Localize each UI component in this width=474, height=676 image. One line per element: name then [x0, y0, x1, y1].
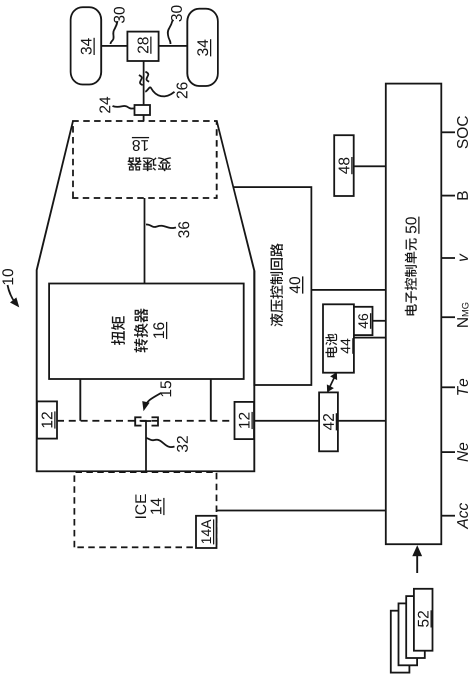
- housing outline 10: [37, 121, 255, 471]
- wire 36: [144, 198, 146, 284]
- ECU 50: [386, 84, 442, 545]
- wire 16 to shaft lower: [210, 379, 212, 421]
- leader 24: [113, 106, 135, 109]
- input shaft dashed: [57, 420, 235, 422]
- label 32: [177, 436, 188, 452]
- leader arrow 15: [145, 393, 161, 407]
- label 10: [2, 269, 13, 284]
- wire 46 to ECU: [373, 320, 386, 322]
- label 36: [178, 222, 189, 238]
- wire 44 to ECU: [354, 337, 386, 339]
- wire axle upper: [101, 45, 127, 47]
- wire 42 to ECU: [338, 420, 386, 422]
- label v: [460, 253, 468, 261]
- leader 26: [145, 87, 174, 96]
- wire clutch to ICE: [145, 421, 147, 471]
- signal tick Ne: [441, 451, 455, 453]
- wire shaft 26: [143, 61, 145, 105]
- double arrow 42-44: [329, 376, 335, 389]
- inverter 42: [319, 392, 338, 451]
- signal tick Te: [441, 386, 455, 388]
- coupling 24: [135, 105, 151, 115]
- signal tick v: [441, 257, 455, 259]
- gearbox 18 dashed box: [73, 121, 217, 198]
- shaft break mark: [139, 75, 143, 85]
- label 26: [177, 82, 188, 98]
- leader arrow 10: [8, 285, 16, 303]
- sensor 48: [334, 135, 354, 196]
- label SOC: [457, 116, 468, 148]
- wire 48 to ECU: [354, 165, 386, 167]
- sensor 46: [354, 307, 373, 335]
- wire 16 to shaft upper: [79, 379, 81, 421]
- wheel 34 upper: [71, 7, 102, 84]
- signal tick NMG: [441, 316, 455, 318]
- label Ne: [457, 443, 468, 462]
- wire 12 to 42: [254, 420, 319, 422]
- label NMG: [457, 318, 468, 327]
- mount 12 upper: [37, 401, 57, 438]
- leader 36: [146, 224, 176, 228]
- wheel 34 lower: [187, 9, 218, 86]
- wire axle lower: [159, 45, 188, 47]
- starter box 14A: [196, 516, 217, 548]
- label 30 right: [171, 5, 182, 21]
- wire 14A to ECU: [217, 510, 386, 512]
- engine ICE 14 dashed box: [74, 472, 216, 547]
- clutch 15: [135, 417, 141, 425]
- label Te: [457, 379, 468, 395]
- arrow into ECU: [416, 554, 418, 573]
- torque converter 16: [49, 284, 244, 380]
- leader 32: [146, 438, 174, 447]
- leader 30 right: [168, 21, 173, 45]
- signal tick Acc: [441, 515, 455, 517]
- label B: [457, 191, 468, 199]
- mount 12 lower: [235, 402, 255, 439]
- label Acc: [457, 503, 468, 529]
- label 15: [160, 381, 171, 396]
- label gearbox 18 (vertical text): [127, 138, 171, 172]
- battery 44: [323, 304, 354, 372]
- label 30 left: [114, 7, 125, 23]
- signal stack 52: [391, 611, 410, 673]
- leader 30 left: [111, 21, 118, 44]
- wire 40 to ECU: [311, 289, 385, 291]
- signal tick SOC: [441, 131, 455, 133]
- gearset box 28: [127, 32, 158, 61]
- label 24: [99, 97, 110, 113]
- signal tick B: [441, 195, 455, 197]
- hydraulic control circuit 40: [234, 187, 312, 385]
